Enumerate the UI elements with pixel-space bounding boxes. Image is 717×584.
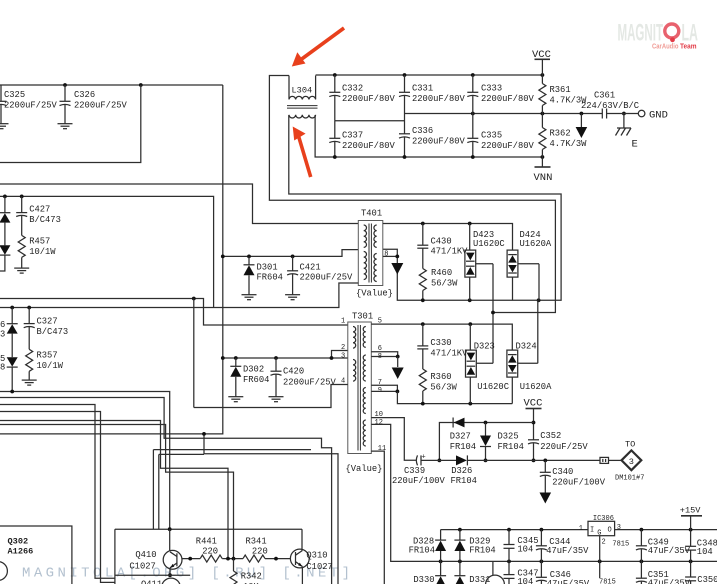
- node dot Q310 base: [274, 557, 278, 561]
- wire vertical x=222.8 down to bottom-left net: [0, 85, 223, 434]
- wire mid rail: [405, 113, 603, 115]
- node dots mid rail: [471, 112, 475, 116]
- capacitor C326: [58, 85, 128, 129]
- svg-text:2200uF/80V: 2200uF/80V: [481, 94, 535, 104]
- svg-text:U1620C: U1620C: [477, 382, 509, 392]
- wire bundle W4: [0, 412, 115, 583]
- power VNN: [534, 157, 553, 184]
- power VCC top: [532, 49, 551, 75]
- capacitor C344: [536, 530, 589, 562]
- node dots bottom rail T401 section: [421, 298, 425, 302]
- arrow net symbol pins 6/8: [392, 368, 404, 380]
- svg-text:D324: D324: [516, 341, 537, 351]
- resistor R341: [243, 537, 290, 563]
- svg-text:10/1W: 10/1W: [37, 361, 64, 371]
- diode D324: [507, 300, 552, 403]
- svg-text:104: 104: [517, 577, 533, 584]
- svg-text:R457: R457: [29, 237, 50, 247]
- resistor R357: [22, 349, 64, 385]
- svg-text:2200uF/80V: 2200uF/80V: [481, 141, 535, 151]
- capacitor C361: [581, 91, 639, 119]
- svg-text:2: 2: [341, 344, 345, 352]
- capacitor C337: [329, 121, 395, 157]
- svg-text:D325: D325: [498, 432, 519, 442]
- wire vertical x=193.8 to T301 pin4 return: [193, 299, 195, 408]
- wire T301 pin5 secondary top: [371, 324, 512, 350]
- node dots rail T301: [421, 402, 425, 406]
- svg-text:2200uF/25V: 2200uF/25V: [300, 273, 354, 283]
- wire T401 pin8: [383, 255, 398, 257]
- wire top cap bank rail: [316, 74, 543, 76]
- resistor R460: [419, 268, 458, 300]
- capacitor C327: [24, 308, 68, 350]
- wire C332/C337 mid link: [335, 120, 405, 122]
- resistor R342: [230, 559, 262, 584]
- svg-text:L304: L304: [292, 86, 313, 96]
- svg-text:R441: R441: [196, 537, 217, 547]
- diode D424: [507, 230, 552, 300]
- svg-text:C330: C330: [430, 338, 451, 348]
- svg-text:U1620A: U1620A: [520, 382, 552, 392]
- wire Q-row collector rail: [115, 528, 302, 530]
- box Q302 region: [0, 526, 72, 584]
- diode D329: [454, 530, 495, 562]
- wire T301 pins 7/9: [371, 385, 397, 391]
- wire T301 pin4: [194, 385, 348, 408]
- diode D325: [480, 423, 524, 463]
- svg-text:Q410: Q410: [135, 550, 156, 560]
- diode D327: [450, 418, 476, 452]
- svg-text:T401: T401: [361, 209, 382, 219]
- svg-text:2200uF/80V: 2200uF/80V: [412, 137, 466, 147]
- wire bundle W6: [0, 425, 234, 559]
- wire bundle W1 to Q410 collector: [0, 392, 170, 530]
- svg-text:47uF/35V: 47uF/35V: [547, 579, 590, 584]
- capacitor C420: [269, 356, 337, 402]
- node dots on top cap rail: [333, 73, 337, 77]
- svg-text:47uF/35V: 47uF/35V: [648, 546, 691, 556]
- svg-text:471/1KV: 471/1KV: [430, 348, 468, 358]
- svg-text:10/1W: 10/1W: [29, 247, 56, 257]
- capacitor C339 series: [392, 454, 446, 487]
- svg-text:224/63V/B/C: 224/63V/B/C: [581, 101, 639, 111]
- transistor Q411 cut at bottom: [141, 578, 180, 584]
- capacitor C347: [504, 561, 539, 584]
- node dots rail2: [439, 560, 443, 564]
- svg-text:D330: D330: [413, 575, 434, 584]
- pin labels T301: [341, 317, 386, 453]
- svg-text:C421: C421: [300, 262, 321, 272]
- svg-text:220: 220: [202, 546, 218, 556]
- svg-text:C325: C325: [4, 90, 25, 100]
- svg-text:R360: R360: [430, 372, 451, 382]
- svg-text:C361: C361: [594, 91, 615, 101]
- resistor R441: [196, 537, 243, 563]
- svg-text:{Value}: {Value}: [346, 464, 383, 474]
- capacitor C325: [0, 85, 58, 129]
- svg-text:R342: R342: [241, 572, 262, 582]
- wire T401 secondary top to D423/D424: [383, 224, 513, 251]
- node dot Q410 collector: [168, 527, 172, 531]
- diode pair left edge upper: [0, 196, 10, 271]
- svg-text:56/3W: 56/3W: [430, 383, 457, 393]
- diode D302: [228, 356, 269, 402]
- node junction x=140.8 on top rail: [139, 83, 143, 87]
- capacitor C351: [636, 561, 691, 584]
- svg-text:VNN: VNN: [534, 172, 553, 184]
- wire box below C325/C326: [0, 85, 141, 163]
- wire Q410 base to R441: [182, 558, 200, 560]
- arrow red lower: [293, 127, 311, 178]
- svg-text:3: 3: [629, 457, 634, 467]
- inductor L304: [287, 76, 318, 118]
- svg-text:D301: D301: [257, 262, 278, 272]
- svg-text:FR604: FR604: [243, 375, 269, 385]
- node dot diode column top: [3, 195, 7, 199]
- wire left big box top edge: [0, 196, 214, 307]
- capacitor C430: [417, 224, 468, 269]
- wire T301 pin10 to C339: [371, 418, 417, 461]
- zener diode pair left edge lower: [0, 308, 18, 392]
- connector mark small box: [600, 457, 622, 463]
- transformer T301: [346, 312, 383, 475]
- svg-text:U1620C: U1620C: [473, 239, 505, 249]
- node dot T401 right return: [395, 255, 399, 259]
- svg-text:3: 3: [0, 330, 5, 340]
- node dot zener col join: [10, 390, 14, 394]
- svg-text:Team: Team: [680, 42, 697, 51]
- svg-text:C337: C337: [342, 131, 363, 141]
- node dots secondary top: [421, 222, 425, 226]
- arrow net symbol on mid rail: [576, 114, 588, 139]
- wire top rail left: [0, 84, 223, 86]
- svg-text:220uF/100V: 220uF/100V: [552, 478, 606, 488]
- svg-text:IC306: IC306: [593, 515, 614, 523]
- svg-text:FR604: FR604: [257, 273, 283, 283]
- svg-text:220uF/100V: 220uF/100V: [392, 476, 446, 486]
- svg-text:B/C473: B/C473: [29, 215, 61, 225]
- wire T401 primary top feed: [0, 184, 358, 224]
- node dot at 493,312.5: [491, 311, 495, 315]
- svg-text:Q411: Q411: [141, 580, 162, 584]
- wire bundle W5: [0, 421, 228, 559]
- wire bundle W2: [0, 398, 332, 584]
- capacitor C333: [467, 75, 534, 114]
- wire bottom rail1 left: [441, 529, 588, 531]
- capacitor C336: [399, 114, 466, 158]
- wire bottom rail2: [441, 560, 717, 562]
- svg-text:Q302: Q302: [8, 536, 29, 546]
- wire lower-left rail into T301 pin1 jog: [0, 299, 348, 326]
- wire stub horiz y=443.6: [159, 453, 204, 455]
- capacitor C345: [504, 530, 539, 562]
- capacitor C421: [285, 255, 353, 300]
- power +15V: [680, 506, 702, 530]
- svg-text:R361: R361: [550, 85, 571, 95]
- svg-text:R357: R357: [37, 351, 58, 361]
- wire D327 upper branch: [439, 423, 533, 461]
- capacitor C335: [467, 114, 534, 158]
- svg-text:C340: C340: [552, 467, 573, 477]
- svg-text:3: 3: [617, 524, 621, 532]
- svg-text:R341: R341: [246, 537, 267, 547]
- svg-text:R362: R362: [550, 128, 571, 138]
- svg-text:C1027: C1027: [306, 562, 332, 572]
- svg-text:C339: C339: [404, 466, 425, 476]
- arrow red upper: [292, 28, 344, 67]
- ground E chassis: [616, 114, 638, 151]
- wire T301 pin11 down: [371, 451, 384, 584]
- svg-text:DM101#7: DM101#7: [615, 475, 644, 483]
- wire L304 bottom-right pin to lower cap rail: [315, 115, 542, 157]
- inductor L304 left loop wire: [269, 76, 555, 313]
- capacitor C331: [399, 75, 466, 114]
- svg-text:C420: C420: [283, 366, 304, 376]
- svg-text:104: 104: [697, 547, 713, 557]
- wire main output to connector: [486, 459, 601, 461]
- svg-text:471/1KV: 471/1KV: [431, 247, 469, 257]
- svg-text:FR104: FR104: [498, 442, 524, 452]
- wire D423 center tap vertical: [492, 264, 494, 364]
- svg-text:E: E: [632, 139, 638, 151]
- regulator IC306: [579, 515, 629, 578]
- capacitor C346: [536, 561, 590, 584]
- wire branch to bottom transistor: [492, 561, 494, 575]
- wire bottom rail1 right: [615, 529, 717, 531]
- wire D302/C420 rail to T301 pins 2/3: [223, 351, 348, 359]
- svg-text:C427: C427: [29, 205, 50, 215]
- svg-text:220: 220: [252, 546, 268, 556]
- svg-text:C335: C335: [481, 131, 502, 141]
- svg-text:C331: C331: [412, 84, 433, 94]
- svg-text:12: 12: [375, 419, 383, 427]
- wire D301/C421 rail to T401: [223, 250, 358, 257]
- svg-text:GND: GND: [649, 110, 668, 122]
- svg-text:8: 8: [384, 250, 388, 258]
- transistor Q310: [290, 529, 332, 584]
- capacitor C352: [528, 431, 588, 460]
- svg-text:I: I: [590, 527, 594, 535]
- svg-text:6: 6: [0, 320, 5, 330]
- svg-text:2200uF/25V: 2200uF/25V: [283, 377, 337, 387]
- svg-text:2200uF/25V: 2200uF/25V: [74, 101, 128, 111]
- terminal GND circle: [638, 110, 668, 122]
- svg-text:7815: 7815: [599, 579, 616, 584]
- svg-text:47uF/35V: 47uF/35V: [546, 546, 589, 556]
- wire T301 pins 6/8: [371, 352, 397, 357]
- svg-text:D326: D326: [451, 466, 472, 476]
- svg-text:U1620A: U1620A: [520, 239, 552, 249]
- capacitor C350: [685, 561, 717, 584]
- svg-text:FR104: FR104: [409, 546, 435, 556]
- node dots on rail: [221, 356, 225, 360]
- wire stub vertical x=151.3: [152, 450, 154, 530]
- svg-text:C333: C333: [481, 84, 502, 94]
- svg-text:1: 1: [341, 318, 345, 326]
- diode D330: [413, 561, 446, 584]
- wire L304 bottom-left pin loop to VNN return: [289, 115, 561, 300]
- svg-text:D302: D302: [243, 365, 264, 375]
- svg-text:1: 1: [579, 525, 583, 533]
- svg-text:+15V: +15V: [680, 506, 701, 516]
- wire zener/C327 feed rail: [0, 283, 358, 308]
- svg-text:D327: D327: [450, 432, 471, 442]
- svg-text:2200uF/25V: 2200uF/25V: [4, 101, 58, 111]
- svg-text:2: 2: [602, 538, 606, 546]
- svg-text:2200uF/80V: 2200uF/80V: [342, 94, 396, 104]
- capacitor C330: [417, 324, 468, 369]
- svg-text:{Value}: {Value}: [356, 289, 393, 299]
- power VCC lower: [524, 398, 543, 440]
- svg-text:TO: TO: [625, 440, 635, 450]
- transistor bottom cut: [486, 575, 505, 584]
- svg-text:220uF/25V: 220uF/25V: [540, 442, 588, 452]
- wire emitter rail: [115, 574, 190, 576]
- capacitor C348: [685, 530, 717, 562]
- node dot zener col: [10, 306, 14, 310]
- svg-text:3: 3: [341, 352, 345, 360]
- svg-text:C326: C326: [74, 90, 95, 100]
- svg-text:4.7K/3W: 4.7K/3W: [550, 139, 588, 149]
- resistor R362: [539, 114, 587, 158]
- resistor R360: [419, 369, 457, 404]
- svg-text:B/C473: B/C473: [37, 327, 69, 337]
- svg-text:O: O: [608, 527, 612, 535]
- svg-text:8: 8: [0, 363, 5, 373]
- capacitor C349: [636, 530, 691, 562]
- connector TO 3 diamond: [615, 440, 644, 483]
- svg-text:C352: C352: [540, 431, 561, 441]
- transformer T401: [356, 209, 393, 299]
- svg-text:CarAudio: CarAudio: [652, 42, 679, 51]
- capacitor C340: [540, 459, 606, 504]
- svg-text:C327: C327: [37, 317, 58, 327]
- svg-text:FR104: FR104: [469, 546, 495, 556]
- node dots base rail: [226, 557, 230, 561]
- node dots lower cap rail: [333, 155, 337, 159]
- node dots VCC column: [532, 421, 536, 425]
- svg-text:2200uF/80V: 2200uF/80V: [412, 94, 466, 104]
- node dot rail at x=222.8: [221, 255, 225, 259]
- svg-text:D323: D323: [474, 341, 495, 351]
- svg-text:R460: R460: [431, 268, 452, 278]
- svg-text:FR104: FR104: [451, 476, 477, 486]
- svg-text:T301: T301: [352, 312, 373, 322]
- wire bundle W7: [204, 434, 338, 584]
- diode D301: [242, 255, 283, 300]
- svg-text:C332: C332: [342, 84, 363, 94]
- wire bundle W3: [0, 405, 115, 579]
- svg-text:A1266: A1266: [8, 547, 34, 557]
- resistor R361: [539, 75, 587, 114]
- svg-text:FR104: FR104: [450, 442, 476, 452]
- diode D323: [466, 324, 509, 404]
- wire T301 pin12 to bottom rail2: [371, 424, 440, 561]
- diode D328: [409, 530, 447, 562]
- node junction C326 top: [63, 83, 67, 87]
- wire stub vertical x=158.4: [158, 454, 160, 529]
- capacitor C332: [329, 75, 395, 121]
- diode D423: [465, 224, 505, 301]
- node dot C427 top: [20, 195, 24, 199]
- node dot jog: [192, 297, 196, 301]
- resistor R457: [14, 235, 56, 273]
- transistor Q410: [129, 529, 182, 577]
- svg-text:C350: C350: [697, 575, 717, 584]
- arrow net symbol below T401 pin8: [391, 263, 403, 275]
- logo MAGNITOLA top right: [618, 20, 698, 51]
- svg-text:C336: C336: [412, 126, 433, 136]
- wire L304 top winding right to cap bank rail: [315, 76, 317, 100]
- diode D326: [439, 455, 485, 486]
- svg-text:7815: 7815: [612, 541, 629, 549]
- svg-text:Q310: Q310: [306, 551, 327, 561]
- node dot C327 col: [27, 306, 31, 310]
- capacitor C427: [16, 196, 61, 235]
- svg-text:C1027: C1027: [129, 562, 155, 572]
- diode D331: [454, 561, 490, 584]
- svg-text:2200uF/80V: 2200uF/80V: [342, 141, 396, 151]
- node dots rail1: [458, 528, 462, 532]
- svg-text:56/3W: 56/3W: [431, 279, 458, 289]
- svg-text:C430: C430: [431, 236, 452, 246]
- svg-text:104: 104: [517, 545, 533, 555]
- svg-text:47uF/35V: 47uF/35V: [648, 579, 691, 584]
- svg-text:+: +: [422, 454, 426, 462]
